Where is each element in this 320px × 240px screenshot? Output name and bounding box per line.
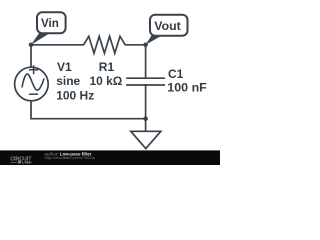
- svg-text:Vin: Vin: [41, 17, 59, 30]
- svg-text:R1: R1: [99, 60, 115, 74]
- svg-text:Vout: Vout: [154, 19, 180, 33]
- svg-text:C1: C1: [168, 67, 184, 81]
- svg-text:sine: sine: [56, 74, 80, 88]
- svg-text:V1: V1: [57, 60, 72, 74]
- svg-text:http://circuitlab.com/c/7637w: http://circuitlab.com/c/7637w: [45, 155, 96, 160]
- svg-text:100 nF: 100 nF: [167, 81, 207, 95]
- svg-text:LAB: LAB: [22, 160, 30, 165]
- svg-text:10 kΩ: 10 kΩ: [90, 74, 123, 88]
- svg-text:100 Hz: 100 Hz: [56, 88, 94, 102]
